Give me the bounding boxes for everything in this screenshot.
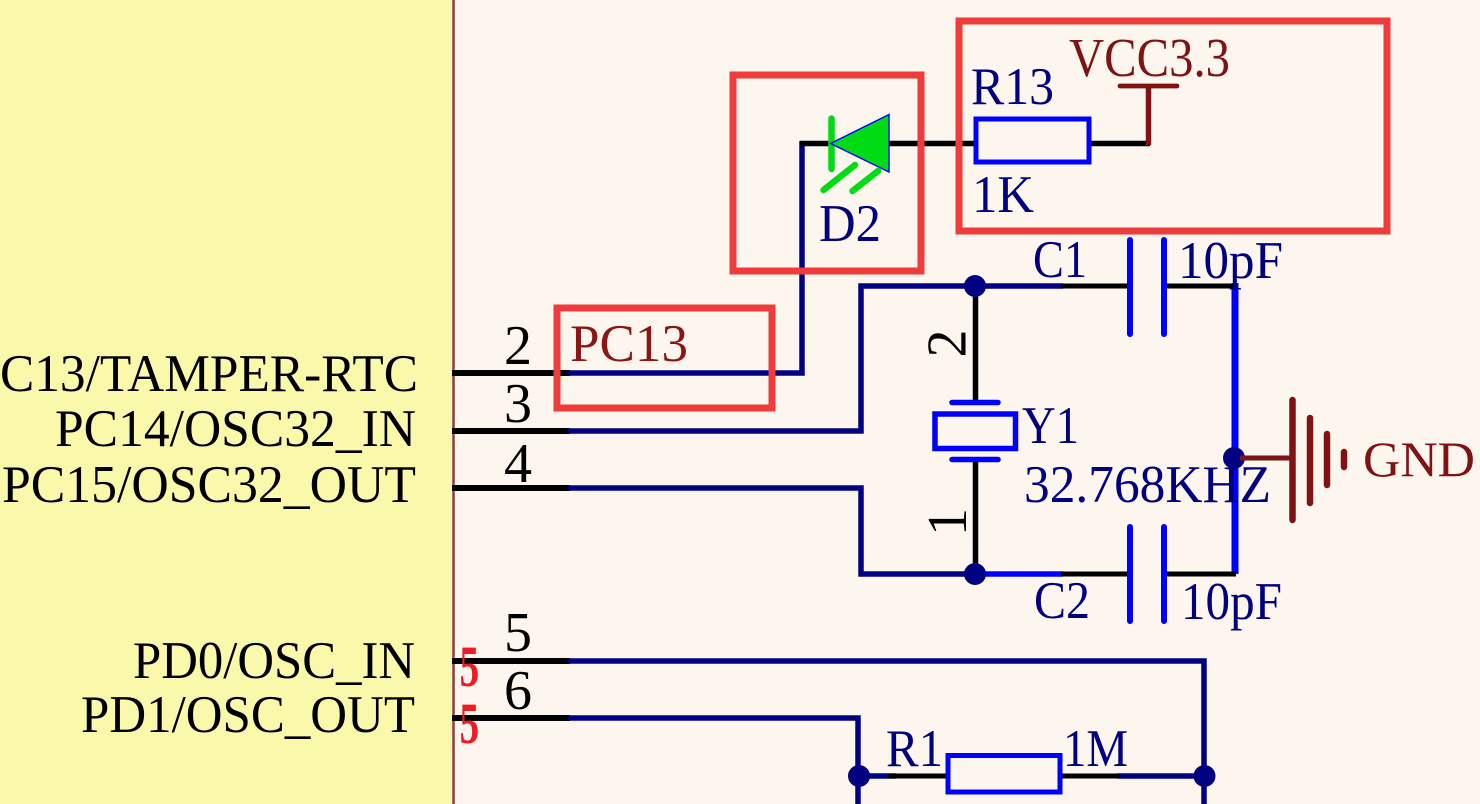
- net wire PC13 (pin2 to LED): [568, 141, 802, 373]
- svg-text:C1: C1: [1033, 231, 1087, 289]
- svg-text:D2: D2: [819, 195, 881, 253]
- svg-text:4: 4: [504, 433, 532, 495]
- wire R1 row left navy: [858, 773, 896, 779]
- resistor R1 body: [948, 756, 1060, 793]
- svg-text:PD1/OSC_OUT: PD1/OSC_OUT: [81, 686, 415, 744]
- svg-text:1K: 1K: [972, 166, 1034, 224]
- wire black R13 to VCC: [1087, 141, 1150, 147]
- wire black R1 right: [1060, 774, 1120, 779]
- svg-text:R13: R13: [971, 58, 1054, 116]
- power port VCC3.3 stem: [1146, 86, 1152, 145]
- ground wire maroon: [1240, 456, 1292, 461]
- power port VCC3.3 bar: [1120, 84, 1177, 89]
- svg-text:5: 5: [504, 602, 532, 664]
- net wire OSC_OUT (pin6 to R1 left): [568, 718, 858, 804]
- svg-text:Y1: Y1: [1022, 397, 1079, 455]
- pin 4 wire: [452, 485, 570, 491]
- svg-text:1M: 1M: [1063, 720, 1128, 778]
- LED D2 cathode bar: [828, 119, 835, 170]
- svg-text:5: 5: [460, 635, 480, 699]
- svg-text:GND: GND: [1363, 431, 1475, 487]
- svg-text:C13/TAMPER-RTC: C13/TAMPER-RTC: [0, 345, 418, 403]
- ground symbol bar 3: [1324, 434, 1331, 485]
- pin 2 wire: [452, 370, 570, 376]
- crystal Y1 body: [935, 414, 1016, 449]
- ground symbol bar 1: [1289, 400, 1296, 520]
- net wire OSC_IN (pin5 to R1 right): [568, 661, 1204, 804]
- IC body right border: [452, 0, 455, 804]
- svg-text:10pF: 10pF: [1181, 573, 1282, 631]
- junction node R1 left: [848, 765, 870, 787]
- wire black crystal top stub: [973, 286, 979, 403]
- crystal Y1 top plate: [952, 400, 998, 406]
- wire black C1 right: [1167, 284, 1236, 289]
- LED D2 triangle: [831, 115, 890, 173]
- junction node GND: [1223, 447, 1245, 469]
- svg-text:PD0/OSC_IN: PD0/OSC_IN: [133, 632, 415, 690]
- wire R1 row right navy: [1117, 773, 1204, 779]
- wire blue vertical (caps to GND): [1232, 283, 1239, 574]
- highlight box PC13: [557, 308, 772, 408]
- capacitor C1 right plate: [1161, 240, 1167, 334]
- svg-text:10pF: 10pF: [1178, 232, 1283, 290]
- resistor R13 body: [976, 119, 1089, 162]
- IC body U2 (yellow part body): [0, 0, 452, 804]
- svg-text:6: 6: [504, 660, 532, 722]
- LED D2 light arrow 1: [824, 165, 856, 190]
- svg-text:PC14/OSC32_IN: PC14/OSC32_IN: [55, 400, 416, 458]
- pin 6 wire: [452, 715, 570, 721]
- crystal Y1 bottom plate: [952, 457, 998, 463]
- svg-text:PC15/OSC32_OUT: PC15/OSC32_OUT: [2, 456, 416, 514]
- wire black LED anode stub: [800, 141, 833, 147]
- LED D2 light arrow 2: [853, 171, 879, 191]
- wire C1 row navy: [975, 283, 1063, 289]
- wire black LED to R13: [888, 141, 977, 147]
- svg-text:2: 2: [917, 330, 979, 358]
- highlight box R13/VCC: [959, 21, 1387, 231]
- pin 3 wire: [452, 428, 570, 434]
- capacitor C2 left plate: [1127, 527, 1133, 621]
- wire black R1 left: [888, 774, 950, 779]
- svg-text:PC13: PC13: [570, 315, 688, 373]
- highlight box D2: [733, 75, 921, 271]
- ground symbol bar 4: [1341, 452, 1348, 467]
- svg-text:1: 1: [917, 508, 979, 536]
- svg-text:3: 3: [504, 373, 532, 435]
- svg-text:VCC3.3: VCC3.3: [1069, 27, 1230, 88]
- wire C2 row blue stub: [975, 571, 1063, 577]
- pin 5 wire: [452, 658, 570, 664]
- capacitor C1 left plate: [1127, 240, 1133, 334]
- svg-text:C2: C2: [1034, 572, 1090, 630]
- junction node crystal bottom: [964, 563, 986, 585]
- svg-text:R1: R1: [886, 720, 943, 778]
- junction node R1 right: [1194, 765, 1216, 787]
- wire black C2 left: [1061, 572, 1127, 577]
- svg-text:2: 2: [504, 315, 532, 377]
- ground symbol bar 2: [1307, 418, 1314, 503]
- net wire PC14 (pin3 up to crystal top): [568, 286, 977, 431]
- junction node crystal top: [964, 275, 986, 297]
- svg-text:32.768KHZ: 32.768KHZ: [1024, 456, 1271, 514]
- svg-text:5: 5: [460, 692, 480, 756]
- capacitor C2 right plate: [1161, 527, 1167, 621]
- wire black C2 right: [1167, 572, 1236, 577]
- net wire PC15 (pin4 down to crystal bottom): [568, 488, 977, 574]
- wire black crystal bottom stub: [973, 459, 979, 574]
- wire black C1 left: [1061, 284, 1127, 289]
